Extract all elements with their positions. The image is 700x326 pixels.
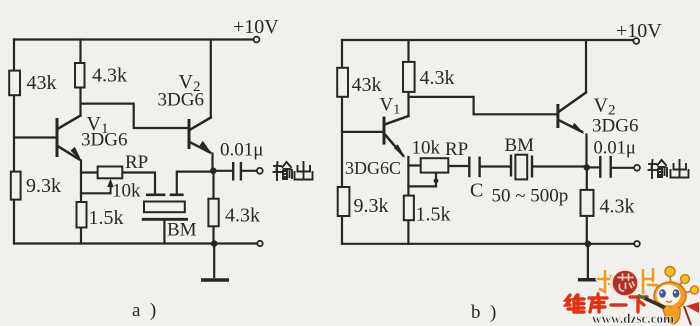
svg-text:4.3k: 4.3k: [225, 205, 260, 227]
svg-text:3DG6: 3DG6: [592, 116, 638, 137]
svg-text:1.5k: 1.5k: [89, 207, 124, 229]
svg-text:b ): b ): [471, 302, 496, 323]
svg-text:3DG6: 3DG6: [81, 130, 127, 151]
svg-text:9.3k: 9.3k: [26, 175, 61, 197]
svg-text:RP: RP: [125, 152, 148, 173]
svg-text:V1: V1: [380, 95, 401, 118]
svg-text:a ): a ): [132, 300, 156, 321]
svg-text:0.01μ: 0.01μ: [594, 139, 636, 159]
svg-text:4.3k: 4.3k: [600, 196, 635, 218]
svg-text:43k: 43k: [27, 72, 57, 94]
svg-text:+10V: +10V: [616, 20, 662, 42]
svg-text:4.3k: 4.3k: [92, 65, 127, 87]
svg-text:50 ~ 500p: 50 ~ 500p: [492, 186, 569, 207]
svg-text:BM: BM: [167, 220, 197, 241]
svg-text:10k: 10k: [112, 181, 141, 202]
svg-text:1.5k: 1.5k: [416, 204, 451, 226]
svg-text:4.3k: 4.3k: [420, 67, 455, 89]
svg-text:www.dzsc.com: www.dzsc.com: [592, 311, 674, 326]
svg-text:BM: BM: [505, 135, 535, 156]
svg-text:9.3k: 9.3k: [354, 195, 389, 217]
svg-text:+10V: +10V: [233, 16, 279, 38]
svg-text:3DG6C: 3DG6C: [345, 158, 401, 178]
svg-text:C: C: [470, 180, 483, 202]
svg-text:10k: 10k: [412, 138, 441, 159]
svg-text:3DG6: 3DG6: [158, 90, 204, 111]
svg-text:43k: 43k: [352, 74, 382, 96]
svg-text:0.01μ: 0.01μ: [220, 140, 263, 161]
svg-text:RP: RP: [445, 139, 468, 160]
